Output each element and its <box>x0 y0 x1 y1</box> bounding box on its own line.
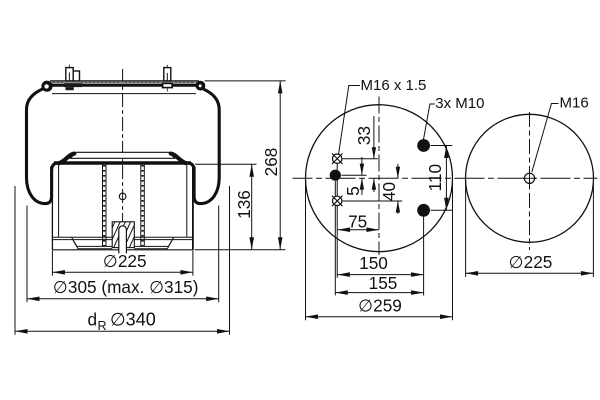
rubber bump over cap left <box>59 154 74 164</box>
ext line 33 top <box>343 158 378 160</box>
ext line 5 top <box>342 174 367 176</box>
stud right <box>166 65 168 67</box>
svg-text:M16 x 1.5: M16 x 1.5 <box>361 77 427 94</box>
dim d259 extensions <box>305 183 307 320</box>
rubber roll joint left <box>52 163 57 170</box>
svg-text:75: 75 <box>348 211 367 231</box>
rubber pinch line over piston <box>54 161 191 164</box>
svg-text:150: 150 <box>359 253 388 273</box>
dim 150 <box>337 274 423 276</box>
vertical centerline right circle <box>529 112 531 250</box>
bead right <box>196 81 206 91</box>
dim d259 <box>306 316 453 318</box>
svg-text:∅305 (max. ∅315): ∅305 (max. ∅315) <box>53 277 199 297</box>
center bolt boss hatched <box>112 222 134 248</box>
dim d225 <box>52 271 193 273</box>
top plate <box>50 80 199 82</box>
svg-text:M16: M16 <box>560 95 589 112</box>
nut left below plate <box>64 84 82 88</box>
M10 column line <box>423 217 425 296</box>
rubber roll joint right <box>189 163 194 170</box>
dim 155 <box>335 292 423 294</box>
dim d225 right <box>466 272 594 274</box>
plate lower clamp band <box>50 84 200 87</box>
piston circle d225 <box>466 114 594 242</box>
rubber top edge under plate <box>52 93 196 95</box>
dim 110 ext lines <box>431 145 453 147</box>
piston inner wall surfaces <box>58 165 60 237</box>
svg-text:∅225: ∅225 <box>103 251 147 271</box>
centerline axis <box>122 69 124 251</box>
fitting column line <box>334 181 336 296</box>
bellows outline left <box>27 89 52 204</box>
svg-text:R: R <box>98 319 107 333</box>
leader 3x M10 <box>423 104 434 140</box>
center bolt <box>119 226 127 254</box>
svg-text:110: 110 <box>425 164 445 191</box>
inner column right pair <box>140 165 142 247</box>
air fitting hole (filled) <box>330 170 341 181</box>
svg-text:268: 268 <box>261 148 281 177</box>
inner column left pair <box>102 165 104 247</box>
dim d225 right extensions <box>465 183 467 277</box>
M16 hole center <box>523 172 536 186</box>
dim 268 extension top <box>205 80 286 82</box>
svg-text:40: 40 <box>379 182 399 201</box>
dim 5 <box>361 157 363 175</box>
stud left (combination fitting) <box>69 65 71 68</box>
bolt column line left <box>336 154 338 278</box>
horizontal centerline both circles <box>293 177 598 179</box>
piston wall right <box>192 166 194 250</box>
vertical centerline left circle <box>378 97 380 256</box>
svg-text:∅340: ∅340 <box>110 310 156 330</box>
dim d340 <box>15 330 230 332</box>
dim 136 <box>251 164 253 250</box>
M10 bolt top <box>417 139 430 152</box>
M10 bolt bottom <box>417 204 430 217</box>
svg-text:5: 5 <box>343 186 363 196</box>
bellows outline right <box>194 89 219 204</box>
piston cap plate <box>71 152 175 158</box>
dim 110 <box>445 146 447 211</box>
dim d305 <box>27 298 219 300</box>
M16x1.5 hole top (crossed circle) <box>332 153 343 164</box>
nut right below plate <box>163 83 173 87</box>
leader M16x1.5 <box>339 86 360 154</box>
dim d305 extensions <box>26 206 28 303</box>
svg-text:136: 136 <box>234 190 254 219</box>
svg-text:155: 155 <box>369 273 398 293</box>
piston bottom edge <box>52 249 193 251</box>
bottom skirt right step <box>134 237 173 246</box>
dim d340 extensions <box>14 186 16 335</box>
dim 40 <box>397 164 399 178</box>
dim 268 <box>279 81 281 250</box>
svg-text:∅225: ∅225 <box>509 252 553 272</box>
rubber bump over cap right <box>171 154 186 164</box>
piston wall left <box>51 166 53 250</box>
M16x1.5 hole bottom (crossed circle) <box>332 196 343 207</box>
dim 33 <box>373 116 375 159</box>
dim 268 extension bottom <box>195 249 286 251</box>
vent hole <box>119 193 126 200</box>
svg-text:d: d <box>88 310 98 330</box>
dim 75 <box>338 229 379 231</box>
bottom skirt left step <box>72 237 113 246</box>
dim 136 extension top <box>195 163 257 165</box>
bottom skirt plate <box>52 236 193 238</box>
dim d225 extensions <box>51 251 53 276</box>
ext line 40 bottom <box>343 200 403 202</box>
flange circle d259 <box>306 105 453 252</box>
svg-text:3x M10: 3x M10 <box>435 95 484 112</box>
leader M16 <box>532 104 559 173</box>
svg-text:∅259: ∅259 <box>358 296 402 316</box>
bead left <box>41 81 52 92</box>
svg-text:33: 33 <box>354 126 374 145</box>
